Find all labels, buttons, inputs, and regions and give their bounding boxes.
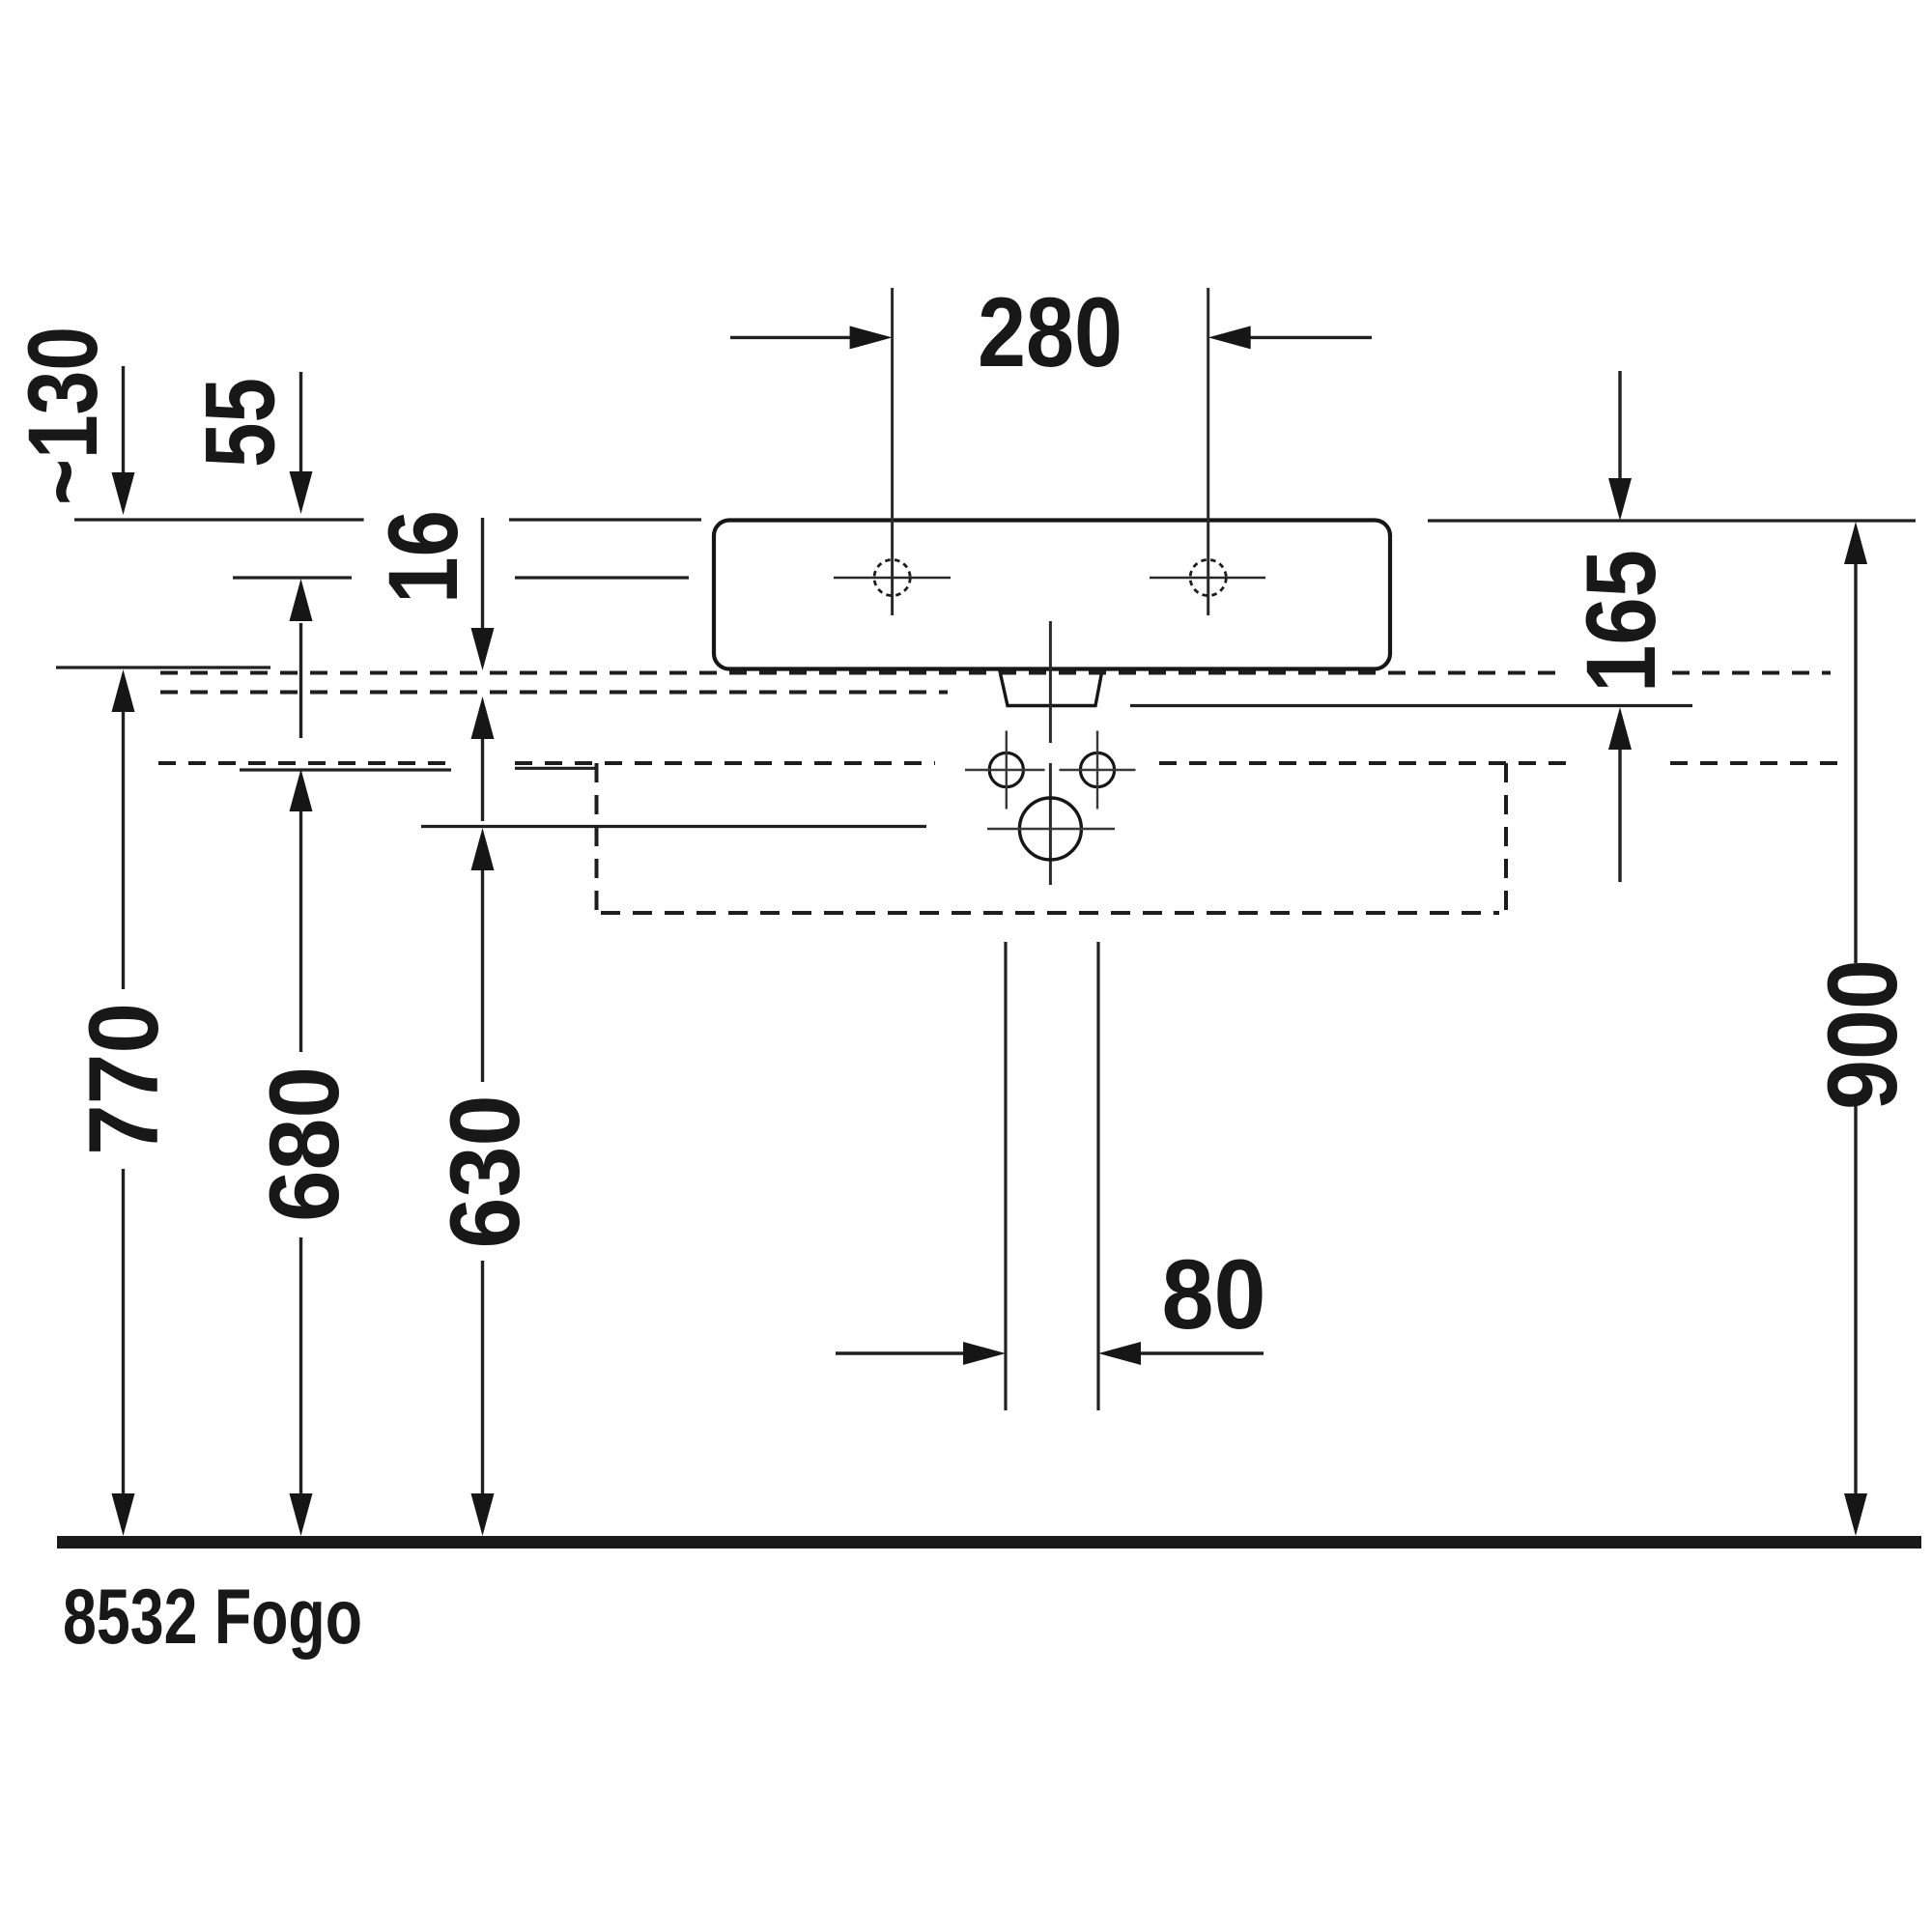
- dim 900 line lower: [1854, 1106, 1857, 1495]
- fixing hole circle left: [989, 753, 1023, 786]
- dim 80 stem right: [1140, 1351, 1264, 1354]
- arrowhead 770 up: [112, 669, 135, 712]
- dim 280 stem left: [730, 336, 852, 339]
- svg-text:900: 900: [1807, 959, 1918, 1110]
- fixing hole right cross vertical: [1096, 731, 1098, 810]
- dashed furniture box right edge: [1504, 763, 1508, 914]
- dim 630 line upper: [481, 869, 484, 1082]
- svg-text:16: 16: [368, 510, 478, 604]
- svg-text:770: 770: [69, 1003, 179, 1155]
- arrowhead 770 ground down: [112, 1493, 135, 1536]
- dim 900 line upper: [1854, 563, 1857, 963]
- dim 16 lower arrow stem: [481, 518, 484, 629]
- faucet hole cross arm right: [1150, 577, 1265, 580]
- dashed line furniture top left: [158, 761, 446, 765]
- dashed furniture box bottom edge: [601, 911, 1499, 915]
- dim 680 line upper: [299, 810, 302, 1052]
- faucet hole cross arm left: [834, 577, 951, 580]
- dashed line countertop top right part: [1672, 671, 1831, 675]
- countertop reference line left: [56, 666, 270, 668]
- dim 280 stem right: [1249, 336, 1372, 339]
- wall reference line left (sink top level): [74, 518, 364, 521]
- dim 80 stem left: [836, 1351, 965, 1354]
- drain pipe line left: [1004, 942, 1007, 1410]
- dim 680 line lower: [299, 1237, 302, 1495]
- arrowhead 55 down: [290, 471, 313, 514]
- dim 16 upper arrow stem: [299, 623, 302, 738]
- fixing hole left cross vertical: [1006, 731, 1008, 810]
- svg-text:8532 Fogo: 8532 Fogo: [63, 1574, 362, 1661]
- arrowhead row2 up: [471, 696, 495, 739]
- wall reference line left part 2: [509, 518, 701, 521]
- dim 165 bottom stem: [1618, 749, 1621, 882]
- svg-text:280: 280: [978, 277, 1122, 387]
- fixing hole circle right: [1080, 753, 1114, 786]
- faucet level reference line left: [233, 576, 352, 579]
- arrowhead 80 left right-pointing: [963, 1342, 1006, 1365]
- dashed line furniture top right: [1159, 761, 1576, 765]
- dashed furniture box left edge: [595, 763, 599, 912]
- dim 770 line upper: [122, 711, 125, 989]
- dashed line furniture top left part 2: [515, 761, 935, 765]
- arrowhead 630 up: [471, 828, 495, 870]
- dashed line countertop bottom left: [160, 691, 948, 695]
- faucet hole dashed circle left: [874, 559, 910, 595]
- dashed line furniture top far right: [1670, 761, 1843, 765]
- dim 630 line lower: [481, 1261, 484, 1495]
- dim ~130 stem: [122, 366, 125, 473]
- reference line 165 bottom: [1130, 704, 1692, 707]
- svg-text:165: 165: [1566, 550, 1676, 693]
- arrowhead 16 up: [290, 579, 313, 621]
- arrowhead 900 top up: [1844, 522, 1867, 564]
- arrowhead 680 up: [290, 769, 313, 811]
- arrowhead 900 ground down: [1844, 1493, 1867, 1536]
- arrowhead 80 right left-pointing: [1098, 1342, 1141, 1365]
- drain fitting trapezoid: [1000, 669, 1103, 706]
- faucet extension line right (280 dim): [1207, 288, 1209, 615]
- fixing hole right cross horizontal: [1060, 769, 1136, 771]
- faucet hole dashed circle right: [1190, 559, 1226, 595]
- arrowhead ~130 down: [112, 472, 135, 515]
- drain centerline lower: [1049, 763, 1052, 885]
- dim 770 line lower: [122, 1169, 125, 1495]
- dim 55 stem: [299, 372, 302, 472]
- fixing hole left cross horizontal: [965, 769, 1045, 771]
- reference line furniture top short: [515, 767, 597, 770]
- drain centerline upper: [1049, 621, 1052, 743]
- arrowhead 165 top down: [1608, 478, 1632, 521]
- ground line: [57, 1536, 1921, 1548]
- faucet level reference line right: [515, 576, 689, 579]
- svg-text:80: 80: [1162, 1239, 1266, 1350]
- faucet extension line left (280 dim): [891, 288, 894, 615]
- reference line 680 top: [240, 768, 451, 771]
- reference line 630 top: [421, 825, 926, 828]
- washbasin body: [714, 521, 1390, 669]
- drain pipe line right: [1096, 942, 1099, 1410]
- arrowhead 165 bottom up: [1608, 707, 1632, 750]
- svg-text:~130: ~130: [8, 327, 118, 505]
- dim row2 pointer stem: [481, 738, 484, 821]
- arrowhead 280 left right-pointing: [850, 326, 893, 349]
- arrowhead 16 down: [471, 628, 495, 670]
- svg-text:55: 55: [185, 378, 296, 468]
- drain hole cross horizontal: [987, 828, 1115, 830]
- arrowhead 280 right left-pointing: [1208, 326, 1251, 349]
- svg-text:630: 630: [430, 1095, 540, 1249]
- drain hole circle: [1019, 798, 1081, 860]
- dim 165 top stem: [1618, 371, 1621, 479]
- arrowhead 680 ground down: [290, 1493, 313, 1536]
- svg-text:680: 680: [249, 1066, 359, 1222]
- wall reference line right (sink top level): [1428, 519, 1916, 522]
- dashed line countertop top: [160, 671, 1556, 675]
- arrowhead 630 ground down: [471, 1493, 495, 1536]
